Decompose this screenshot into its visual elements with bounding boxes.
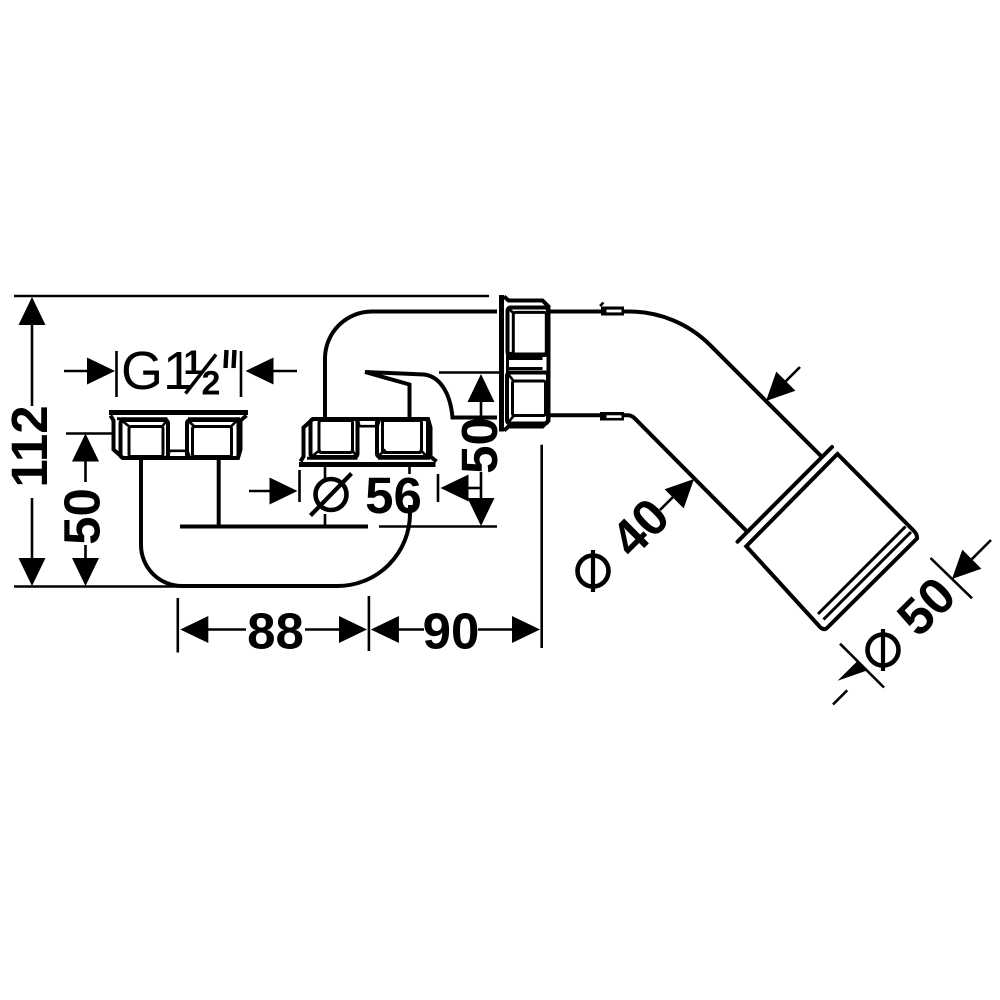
extension line for 50 right top (439, 371, 499, 374)
svg-text:88: 88 (247, 603, 304, 660)
coupling entry ring (738, 447, 833, 542)
svg-text:50: 50 (54, 488, 111, 545)
svg-text:56: 56 (365, 467, 422, 524)
dimension 88 (180, 603, 367, 660)
vertical nut gap lines (508, 359, 543, 369)
dimension dia 50 lower tick (840, 644, 884, 688)
left nut right facet outer (187, 420, 239, 458)
elbow outer wall (325, 312, 497, 420)
dimension dia 50 text (868, 566, 967, 671)
middle nut right facet outer (377, 419, 428, 457)
left nut G1.5 top cap line (109, 410, 248, 415)
elbow inner spout underside (365, 372, 410, 419)
dimension dia 56 text (311, 467, 422, 524)
left nut body outline (111, 416, 247, 459)
dimension dia 50 lower arrow (833, 662, 867, 705)
trap inner bottom line (180, 525, 368, 529)
vertical nut bottom facet inner (513, 381, 546, 416)
dimension dia 50 upper arrow (952, 540, 991, 579)
svg-text:2: 2 (202, 365, 221, 403)
middle nut gap piece (358, 421, 380, 427)
vertical nut bottom facet corner bevels (509, 375, 515, 423)
vertical nut body outline (504, 297, 549, 431)
dimension 50 right text (451, 417, 508, 474)
dimension 112 line (19, 297, 46, 586)
svg-text:112: 112 (1, 405, 58, 487)
dimension G 1 1/2 left arrow (64, 358, 115, 385)
dimension 112 text (1, 405, 58, 487)
vertical nut cap line (499, 295, 504, 432)
dimension dia 56 left arrow (249, 470, 300, 505)
dimension 50 right line (468, 374, 495, 526)
outlet pipe top line (549, 312, 823, 458)
dimension 90 (371, 603, 540, 660)
elbow inner spout top (365, 372, 497, 418)
svg-text:G: G (121, 341, 163, 401)
svg-text:90: 90 (423, 603, 480, 660)
middle nut second line (307, 457, 430, 460)
dimension dia 40 text (578, 487, 681, 592)
outlet pipe bottom line (549, 415, 748, 531)
left nut gap piece (168, 451, 190, 457)
vertical nut top facet corner bevels (509, 309, 515, 354)
vertical nut top facet outer (508, 308, 549, 356)
vertical nut second line (506, 354, 509, 374)
dimension 50 left line (72, 434, 99, 587)
middle nut right facet inner (383, 421, 422, 453)
dimension dia 40 arrow (660, 479, 694, 510)
middle nut left facet outer (311, 419, 358, 457)
left nut left facet corner bevels (123, 422, 166, 428)
outlet pipe bottom weld ring (600, 412, 624, 421)
upper diagonal arrow (766, 367, 800, 401)
extension line right of 90 (540, 445, 543, 648)
dimension G 1 1/2 text (121, 341, 235, 403)
dimension dia 50 upper tick (931, 558, 973, 598)
trap left pipe outer wall and bottom bend (141, 458, 410, 586)
coupling body outline (746, 454, 917, 629)
extension line top (at nut top level) (14, 295, 489, 298)
middle nut left facet corner bevels (313, 450, 356, 456)
middle nut right facet corner bevels (379, 450, 426, 456)
middle nut body outline (301, 419, 437, 462)
dimension G 1 1/2 ticks (117, 351, 242, 397)
left nut second line (117, 417, 240, 420)
left nut left facet outer (121, 420, 169, 458)
dimension 88 90 ticks (178, 596, 369, 653)
outlet pipe top weld ring (600, 303, 624, 316)
dimension 50 left text (54, 488, 111, 545)
left nut right facet corner bevels (189, 422, 236, 428)
extension line for 50 left (66, 432, 112, 435)
left nut right facet inner (193, 427, 232, 457)
trap left pipe inner wall (217, 458, 221, 528)
vertical nut top facet inner (513, 312, 546, 354)
middle nut bottom cap line (299, 462, 436, 467)
extension line bottom (at trap bottom level) (14, 585, 178, 588)
dimension G 1 1/2 right arrow (246, 358, 298, 385)
middle nut left facet inner (319, 421, 353, 453)
vertical nut bottom facet outer (507, 373, 548, 424)
dimension dia 56 right arrow (438, 474, 481, 502)
tailpipe wall marks below middle nut (325, 467, 410, 526)
left nut left facet inner (129, 427, 163, 457)
coupling end bead lines (818, 527, 911, 620)
extension line for 50 right bottom (379, 525, 497, 528)
